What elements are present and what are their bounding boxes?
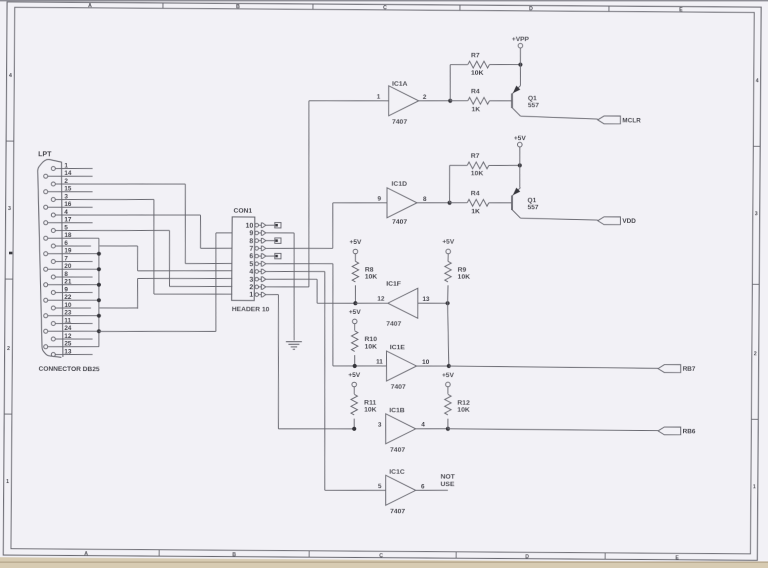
wire ACK: DB25 pin10 to CON1 pin3 xyxy=(136,279,138,309)
svg-text:7407: 7407 xyxy=(390,508,405,515)
svg-text:+5V: +5V xyxy=(348,372,361,379)
bus junction xyxy=(97,267,101,271)
svg-text:10K: 10K xyxy=(457,407,470,414)
svg-text:R8: R8 xyxy=(365,267,374,274)
connector J-LPT DB25 body xyxy=(36,159,62,357)
wire IC1D output node xyxy=(417,202,450,204)
svg-text:557: 557 xyxy=(528,102,539,109)
connector DB25 right edge xyxy=(60,162,64,357)
bus junction xyxy=(97,298,101,302)
DB25 pin 17 xyxy=(44,221,48,225)
svg-text:A: A xyxy=(84,551,88,557)
svg-text:D: D xyxy=(529,6,533,12)
bus junction xyxy=(97,314,101,318)
svg-text:10K: 10K xyxy=(364,343,377,350)
svg-text:Q1: Q1 xyxy=(528,197,537,204)
svg-text:10: 10 xyxy=(422,359,430,366)
svg-text:15: 15 xyxy=(64,186,72,193)
svg-text:D: D xyxy=(525,554,529,560)
svg-text:10K: 10K xyxy=(364,407,377,414)
svg-text:7407: 7407 xyxy=(390,447,405,454)
zone ticks left/right xyxy=(6,140,14,142)
svg-text:4: 4 xyxy=(249,269,253,276)
zone ticks top/bottom xyxy=(162,3,164,8)
svg-text:HEADER 10: HEADER 10 xyxy=(232,306,270,313)
DB25 pin 23 xyxy=(44,314,48,318)
DB25 pin 16 xyxy=(44,205,48,209)
svg-text:IC1B: IC1B xyxy=(389,407,405,414)
resistor R4 1K (stage1) xyxy=(450,100,468,102)
port RB7 xyxy=(658,365,681,373)
DB25 pin 5 xyxy=(51,228,55,232)
svg-text:3: 3 xyxy=(64,193,68,200)
svg-text:CONNECTOR DB25: CONNECTOR DB25 xyxy=(38,366,99,373)
wire CON1 pin3 to IC1F output node xyxy=(266,278,317,281)
op-amp buffer IC1F 7407 (mirrored) xyxy=(355,302,387,304)
op-amp buffer IC1E 7407 xyxy=(386,351,416,381)
wire node up to R7 stage2 xyxy=(448,165,451,202)
svg-text:5: 5 xyxy=(378,483,382,490)
DB25 pin 22 xyxy=(44,298,48,302)
wire D2: DB25 pin4 to CON1 pin7 xyxy=(199,215,201,248)
op-amp buffer IC1C 7407 xyxy=(386,475,416,505)
DB25 pin 2 xyxy=(51,182,55,186)
svg-text:22: 22 xyxy=(64,294,72,301)
svg-text:+VPP: +VPP xyxy=(512,36,530,43)
DB25 pin 18 xyxy=(44,236,48,240)
svg-text:6: 6 xyxy=(64,240,68,247)
port MCLR xyxy=(598,116,621,124)
svg-text:6: 6 xyxy=(249,253,253,260)
svg-text:20: 20 xyxy=(64,263,72,270)
svg-text:IC1F: IC1F xyxy=(386,281,401,288)
wire node up to R7 xyxy=(449,65,452,101)
resistor R7 10K (stage2) xyxy=(467,162,489,169)
svg-text:14: 14 xyxy=(64,170,72,177)
resistor R10 10K xyxy=(354,324,356,331)
svg-text:C: C xyxy=(379,553,383,559)
svg-text:3: 3 xyxy=(249,277,253,284)
svg-text:1: 1 xyxy=(249,292,253,299)
svg-text:LPT: LPT xyxy=(38,151,52,158)
DB25 pin 7 xyxy=(51,259,55,263)
svg-text:10: 10 xyxy=(64,302,72,309)
DB25 pin 1 xyxy=(51,166,55,170)
svg-text:R10: R10 xyxy=(364,336,377,343)
svg-text:1K: 1K xyxy=(471,106,480,113)
wire D3: DB25 pin5 to CON1 pin2 xyxy=(168,231,171,287)
DB25 pin 21 xyxy=(44,283,48,287)
svg-text:10K: 10K xyxy=(365,274,378,281)
svg-text:B: B xyxy=(236,4,240,10)
svg-text:+5V: +5V xyxy=(442,239,455,246)
svg-text:3: 3 xyxy=(378,422,382,429)
svg-text:+5V: +5V xyxy=(442,372,455,379)
svg-text:13: 13 xyxy=(64,348,72,355)
resistor R7 10K (stage1) xyxy=(468,61,490,68)
svg-text:USE: USE xyxy=(440,481,454,488)
svg-text:VDD: VDD xyxy=(622,218,636,225)
svg-text:E: E xyxy=(679,7,683,13)
svg-text:25: 25 xyxy=(64,341,72,348)
svg-text:5: 5 xyxy=(249,261,253,268)
svg-text:4: 4 xyxy=(9,73,12,79)
svg-text:CON1: CON1 xyxy=(233,208,252,215)
svg-text:17: 17 xyxy=(64,217,72,224)
svg-text:1: 1 xyxy=(377,94,381,101)
svg-text:Q1: Q1 xyxy=(528,95,537,102)
junction R8 node 12 xyxy=(353,301,357,305)
wire to RB6 xyxy=(448,429,658,431)
wire IC1C output stub xyxy=(416,489,448,491)
svg-text:1: 1 xyxy=(753,484,756,490)
svg-text:R9: R9 xyxy=(458,267,467,274)
svg-text:1: 1 xyxy=(64,162,68,169)
wire CON1 pin7 to IC1D input xyxy=(266,247,333,250)
wire to RB7 xyxy=(449,366,658,368)
junction R7/+5V stage2 xyxy=(518,163,522,167)
scanner top edge xyxy=(0,0,768,1)
svg-text:R4: R4 xyxy=(471,190,480,197)
DB25 pin 8 xyxy=(51,275,55,279)
wire node13 down to IC1E output xyxy=(447,303,449,366)
svg-text:1K: 1K xyxy=(471,208,480,215)
wire CON1 pin1 to IC1B input xyxy=(266,294,279,296)
bus junction xyxy=(97,329,101,333)
wire D0: DB25 pin2 to CON1 pin5 xyxy=(185,184,186,264)
svg-text:RB7: RB7 xyxy=(683,366,696,373)
ground bus vertical pins 18-25 xyxy=(98,238,100,347)
DB25 pin 4 xyxy=(51,213,55,217)
svg-text:R11: R11 xyxy=(364,400,376,407)
svg-text:R7: R7 xyxy=(471,153,480,160)
wire IC1F input 13 xyxy=(418,302,448,304)
svg-text:2: 2 xyxy=(754,351,757,357)
svg-text:IC1C: IC1C xyxy=(389,469,405,476)
svg-text:9: 9 xyxy=(249,230,253,237)
wire CON1 pin2 to IC1A input xyxy=(266,286,309,289)
svg-text:+5V: +5V xyxy=(349,239,362,246)
transistor Q1 557 (stage2) xyxy=(519,165,521,187)
svg-text:R12: R12 xyxy=(457,400,470,407)
svg-text:16: 16 xyxy=(64,201,72,208)
connector CON1 HEADER 10 box xyxy=(232,217,255,301)
wire GND: bus pin24 row to CON1 pin9 xyxy=(99,331,216,333)
svg-text:2: 2 xyxy=(423,94,427,101)
svg-text:7: 7 xyxy=(249,246,253,253)
bus junction xyxy=(97,252,101,256)
wire CON1 pin9 to ground xyxy=(266,232,294,234)
transistor Q1 557 (stage1) xyxy=(519,65,521,86)
DB25 pin 6 xyxy=(51,244,55,248)
svg-text:IC1E: IC1E xyxy=(390,344,406,351)
CON1 pin 8 jumper pad xyxy=(266,240,275,242)
svg-text:12: 12 xyxy=(64,333,72,340)
op-amp buffer IC1D 7407 xyxy=(387,188,417,218)
DB25 pin 13 xyxy=(51,352,55,356)
svg-text:6: 6 xyxy=(421,483,425,490)
svg-text:NOT: NOT xyxy=(440,474,455,481)
svg-text:5: 5 xyxy=(64,224,68,231)
op-amp buffer IC1B 7407 xyxy=(386,414,416,444)
svg-text:23: 23 xyxy=(64,310,72,317)
svg-text:10K: 10K xyxy=(458,274,471,281)
wire CON1 pin4 to IC1C input xyxy=(266,270,325,273)
resistor R9 10K xyxy=(447,254,449,262)
DB25 pin 24 xyxy=(44,329,48,333)
svg-text:4: 4 xyxy=(421,422,425,429)
ground symbol xyxy=(286,341,302,343)
svg-text:A: A xyxy=(88,3,92,9)
svg-text:12: 12 xyxy=(377,296,385,303)
svg-text:11: 11 xyxy=(376,359,383,366)
resistor R12 10K xyxy=(447,387,449,394)
svg-text:4: 4 xyxy=(756,78,759,84)
svg-text:24: 24 xyxy=(64,325,72,332)
port VDD xyxy=(598,217,621,225)
junction IC1B out node xyxy=(446,427,450,431)
DB25 pin 3 xyxy=(51,197,55,201)
svg-text:10: 10 xyxy=(246,223,254,230)
op-amp buffer IC1A 7407 xyxy=(388,86,418,116)
svg-text:9: 9 xyxy=(377,196,381,203)
svg-text:2: 2 xyxy=(64,178,68,185)
svg-text:19: 19 xyxy=(64,248,72,255)
svg-text:R4: R4 xyxy=(471,88,480,95)
svg-text:MCLR: MCLR xyxy=(622,117,641,124)
resistor R8 10K xyxy=(354,254,356,262)
DB25 pin 9 xyxy=(51,290,55,294)
junction R9 node 13 xyxy=(445,301,449,305)
scanner bottom edge xyxy=(0,561,768,563)
svg-text:557: 557 xyxy=(528,204,539,211)
svg-text:3: 3 xyxy=(8,206,11,212)
svg-text:IC1D: IC1D xyxy=(391,181,407,188)
svg-text:7407: 7407 xyxy=(392,219,407,226)
svg-text:C: C xyxy=(383,5,387,11)
wire D4: DB25 pin6 to CON1 pin4 xyxy=(136,246,138,271)
junction IC1E out node xyxy=(447,364,451,368)
DB25 pin 20 xyxy=(44,267,48,271)
wire CON1 pin5 to IC1E input xyxy=(266,262,333,265)
svg-text:9: 9 xyxy=(64,286,68,293)
svg-text:7407: 7407 xyxy=(386,321,401,328)
wire IC1A output node xyxy=(419,100,451,102)
junction R7/VPP xyxy=(518,62,522,66)
wire Q1 collector to MCLR xyxy=(520,116,597,119)
DB25 pin 14 xyxy=(44,174,48,178)
svg-text:2: 2 xyxy=(7,346,10,352)
bus junction xyxy=(97,283,101,287)
wire D1: DB25 pin3 to CON1 pin1 xyxy=(153,200,154,295)
resistor R4 1K (stage2) xyxy=(450,202,468,204)
DB25 pin 11 xyxy=(51,321,55,325)
svg-text:+5V: +5V xyxy=(514,135,527,142)
svg-text:8: 8 xyxy=(249,238,253,245)
CON1 pin 6 jumper pad xyxy=(266,255,275,257)
port RB6 xyxy=(658,427,681,435)
svg-text:11: 11 xyxy=(64,317,71,324)
svg-text:8: 8 xyxy=(64,271,68,278)
svg-text:7407: 7407 xyxy=(392,119,407,126)
resistor R11 10K xyxy=(353,387,355,394)
svg-text:18: 18 xyxy=(64,232,72,239)
DB25 pin 10 xyxy=(51,306,55,310)
svg-text:3: 3 xyxy=(755,211,758,217)
DB25 pin 19 xyxy=(44,252,48,256)
svg-text:2: 2 xyxy=(249,284,253,291)
DB25 pin 12 xyxy=(51,337,55,341)
svg-text:10K: 10K xyxy=(471,170,484,177)
DB25 pin 15 xyxy=(44,190,48,194)
wire Q1 collector to VDD xyxy=(521,218,598,220)
svg-text:8: 8 xyxy=(423,196,427,203)
wire IC1B output xyxy=(416,428,448,430)
svg-text:1: 1 xyxy=(6,479,9,485)
svg-text:7: 7 xyxy=(64,255,68,262)
left border artifact mark xyxy=(9,252,12,255)
svg-text:R7: R7 xyxy=(471,52,480,59)
svg-text:IC1A: IC1A xyxy=(392,81,408,88)
svg-text:21: 21 xyxy=(64,279,72,286)
svg-text:B: B xyxy=(232,552,236,558)
junction R10 node 11 xyxy=(353,364,357,368)
wire IC1E output xyxy=(417,365,449,367)
svg-text:7407: 7407 xyxy=(391,384,406,391)
svg-text:10K: 10K xyxy=(471,70,484,77)
DB25 pin 25 xyxy=(44,345,48,349)
svg-text:+5V: +5V xyxy=(349,309,362,316)
svg-text:4: 4 xyxy=(64,209,68,216)
CON1 pin 10 jumper pad xyxy=(266,224,275,226)
junction R11 node 3 xyxy=(352,427,356,431)
svg-text:13: 13 xyxy=(422,296,430,303)
svg-text:RB6: RB6 xyxy=(683,428,696,435)
svg-text:E: E xyxy=(675,555,679,561)
